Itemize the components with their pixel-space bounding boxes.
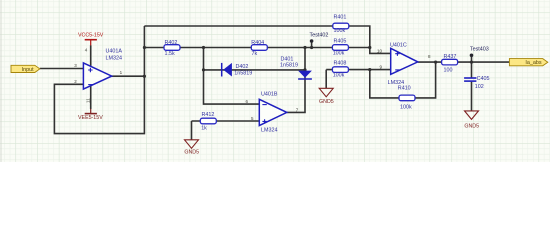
svg-text:U401B: U401B <box>261 91 278 97</box>
svg-text:Test402: Test402 <box>310 33 329 39</box>
svg-text:100k: 100k <box>334 28 346 34</box>
svg-text:7k: 7k <box>252 51 258 57</box>
svg-text:11: 11 <box>86 98 91 103</box>
svg-text:D402: D402 <box>236 64 249 70</box>
svg-text:R410: R410 <box>398 86 411 92</box>
svg-text:R412: R412 <box>202 112 215 118</box>
svg-text:LM324: LM324 <box>106 55 122 61</box>
svg-text:U401C: U401C <box>390 43 407 49</box>
svg-text:10: 10 <box>377 48 383 53</box>
svg-text:100: 100 <box>444 67 453 73</box>
svg-text:1n5819: 1n5819 <box>234 70 252 76</box>
svg-text:VEE5-15V: VEE5-15V <box>78 115 103 121</box>
svg-text:100k: 100k <box>333 73 345 79</box>
svg-text:1k: 1k <box>201 125 207 131</box>
svg-text:Input: Input <box>22 67 34 73</box>
svg-text:R408: R408 <box>334 60 347 66</box>
svg-text:Test403: Test403 <box>470 46 489 52</box>
svg-text:1n5819: 1n5819 <box>280 62 298 68</box>
svg-text:GND5: GND5 <box>184 150 199 156</box>
svg-text:R402: R402 <box>165 40 178 46</box>
svg-text:VCC5-15V: VCC5-15V <box>78 32 104 38</box>
svg-text:C405: C405 <box>477 76 490 82</box>
svg-text:GND5: GND5 <box>464 124 479 130</box>
svg-text:GND5: GND5 <box>319 99 334 105</box>
svg-text:U401A: U401A <box>106 49 123 55</box>
svg-text:Ia_abs: Ia_abs <box>525 60 541 66</box>
svg-text:R404: R404 <box>251 40 264 46</box>
svg-text:R401: R401 <box>334 15 347 21</box>
svg-text:102: 102 <box>475 84 484 90</box>
svg-text:R405: R405 <box>334 39 347 45</box>
svg-text:100k: 100k <box>400 105 412 111</box>
svg-text:R437: R437 <box>444 54 457 60</box>
svg-text:100k: 100k <box>333 51 345 57</box>
svg-text:1.5k: 1.5k <box>165 51 175 57</box>
svg-text:LM324: LM324 <box>261 127 277 133</box>
